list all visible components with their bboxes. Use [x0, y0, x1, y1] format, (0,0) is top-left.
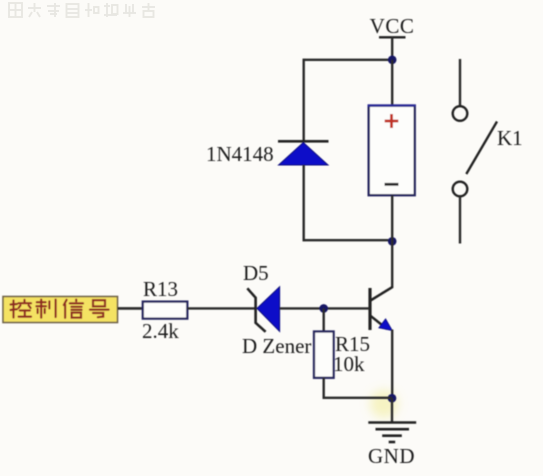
- wire zener to base: [280, 307, 370, 309]
- label control signal box: [3, 297, 118, 323]
- char 控: [11, 300, 32, 318]
- wire emitter node to ground: [391, 398, 393, 421]
- wire VCC stub: [391, 37, 393, 60]
- transistor Q1: [370, 287, 393, 331]
- switch K1 blade: [466, 122, 497, 175]
- minus mark: [385, 183, 399, 186]
- wire left branch down to diode: [303, 59, 305, 141]
- resistor R13: [143, 302, 188, 319]
- char 制: [36, 300, 55, 318]
- switch K1 lower lead: [459, 196, 461, 243]
- wire bottom horizontal to collector node: [304, 239, 393, 241]
- resistor R15: [314, 332, 334, 378]
- svg-text:GND: GND: [368, 444, 415, 468]
- node emitter junction: [388, 394, 397, 403]
- VCC bar: [379, 36, 406, 38]
- node VCC junction: [388, 56, 397, 65]
- svg-text:D Zener: D Zener: [242, 334, 311, 358]
- svg-text:1N4148: 1N4148: [206, 142, 274, 166]
- zener diode D5: [247, 287, 279, 332]
- plus mark: [385, 114, 399, 128]
- wire top horizontal: [304, 59, 393, 61]
- diode 1N4148: [278, 141, 329, 165]
- wire diode to bottom corner: [303, 165, 305, 241]
- wire label to R13: [118, 307, 143, 310]
- char 号: [90, 300, 109, 317]
- switch K1 upper contact: [453, 106, 468, 121]
- char 信: [64, 300, 83, 318]
- svg-text:K1: K1: [497, 126, 523, 150]
- svg-text:10k: 10k: [333, 352, 365, 376]
- wire VCC node to relay coil: [391, 60, 393, 106]
- node base junction: [319, 304, 328, 313]
- wire relay coil to collector node: [391, 195, 393, 242]
- wire R15 bottom to emitter node: [324, 378, 392, 398]
- highlight smudge near emitter junction: [370, 390, 398, 418]
- switch K1 upper lead: [459, 59, 461, 106]
- svg-text:R13: R13: [143, 277, 178, 301]
- wire emitter vertical: [391, 330, 393, 399]
- relay coil K1 body: [369, 106, 415, 196]
- node collector junction: [388, 237, 397, 246]
- svg-text:2.4k: 2.4k: [142, 319, 179, 343]
- svg-text:D5: D5: [243, 261, 269, 285]
- watermark: [9, 3, 155, 17]
- svg-text:VCC: VCC: [370, 14, 415, 38]
- ground: [368, 423, 416, 443]
- wire collector vertical: [391, 241, 393, 287]
- wire R13 to zener: [187, 307, 256, 309]
- switch K1 lower contact: [453, 182, 468, 197]
- wire base node to R15: [323, 308, 325, 331]
